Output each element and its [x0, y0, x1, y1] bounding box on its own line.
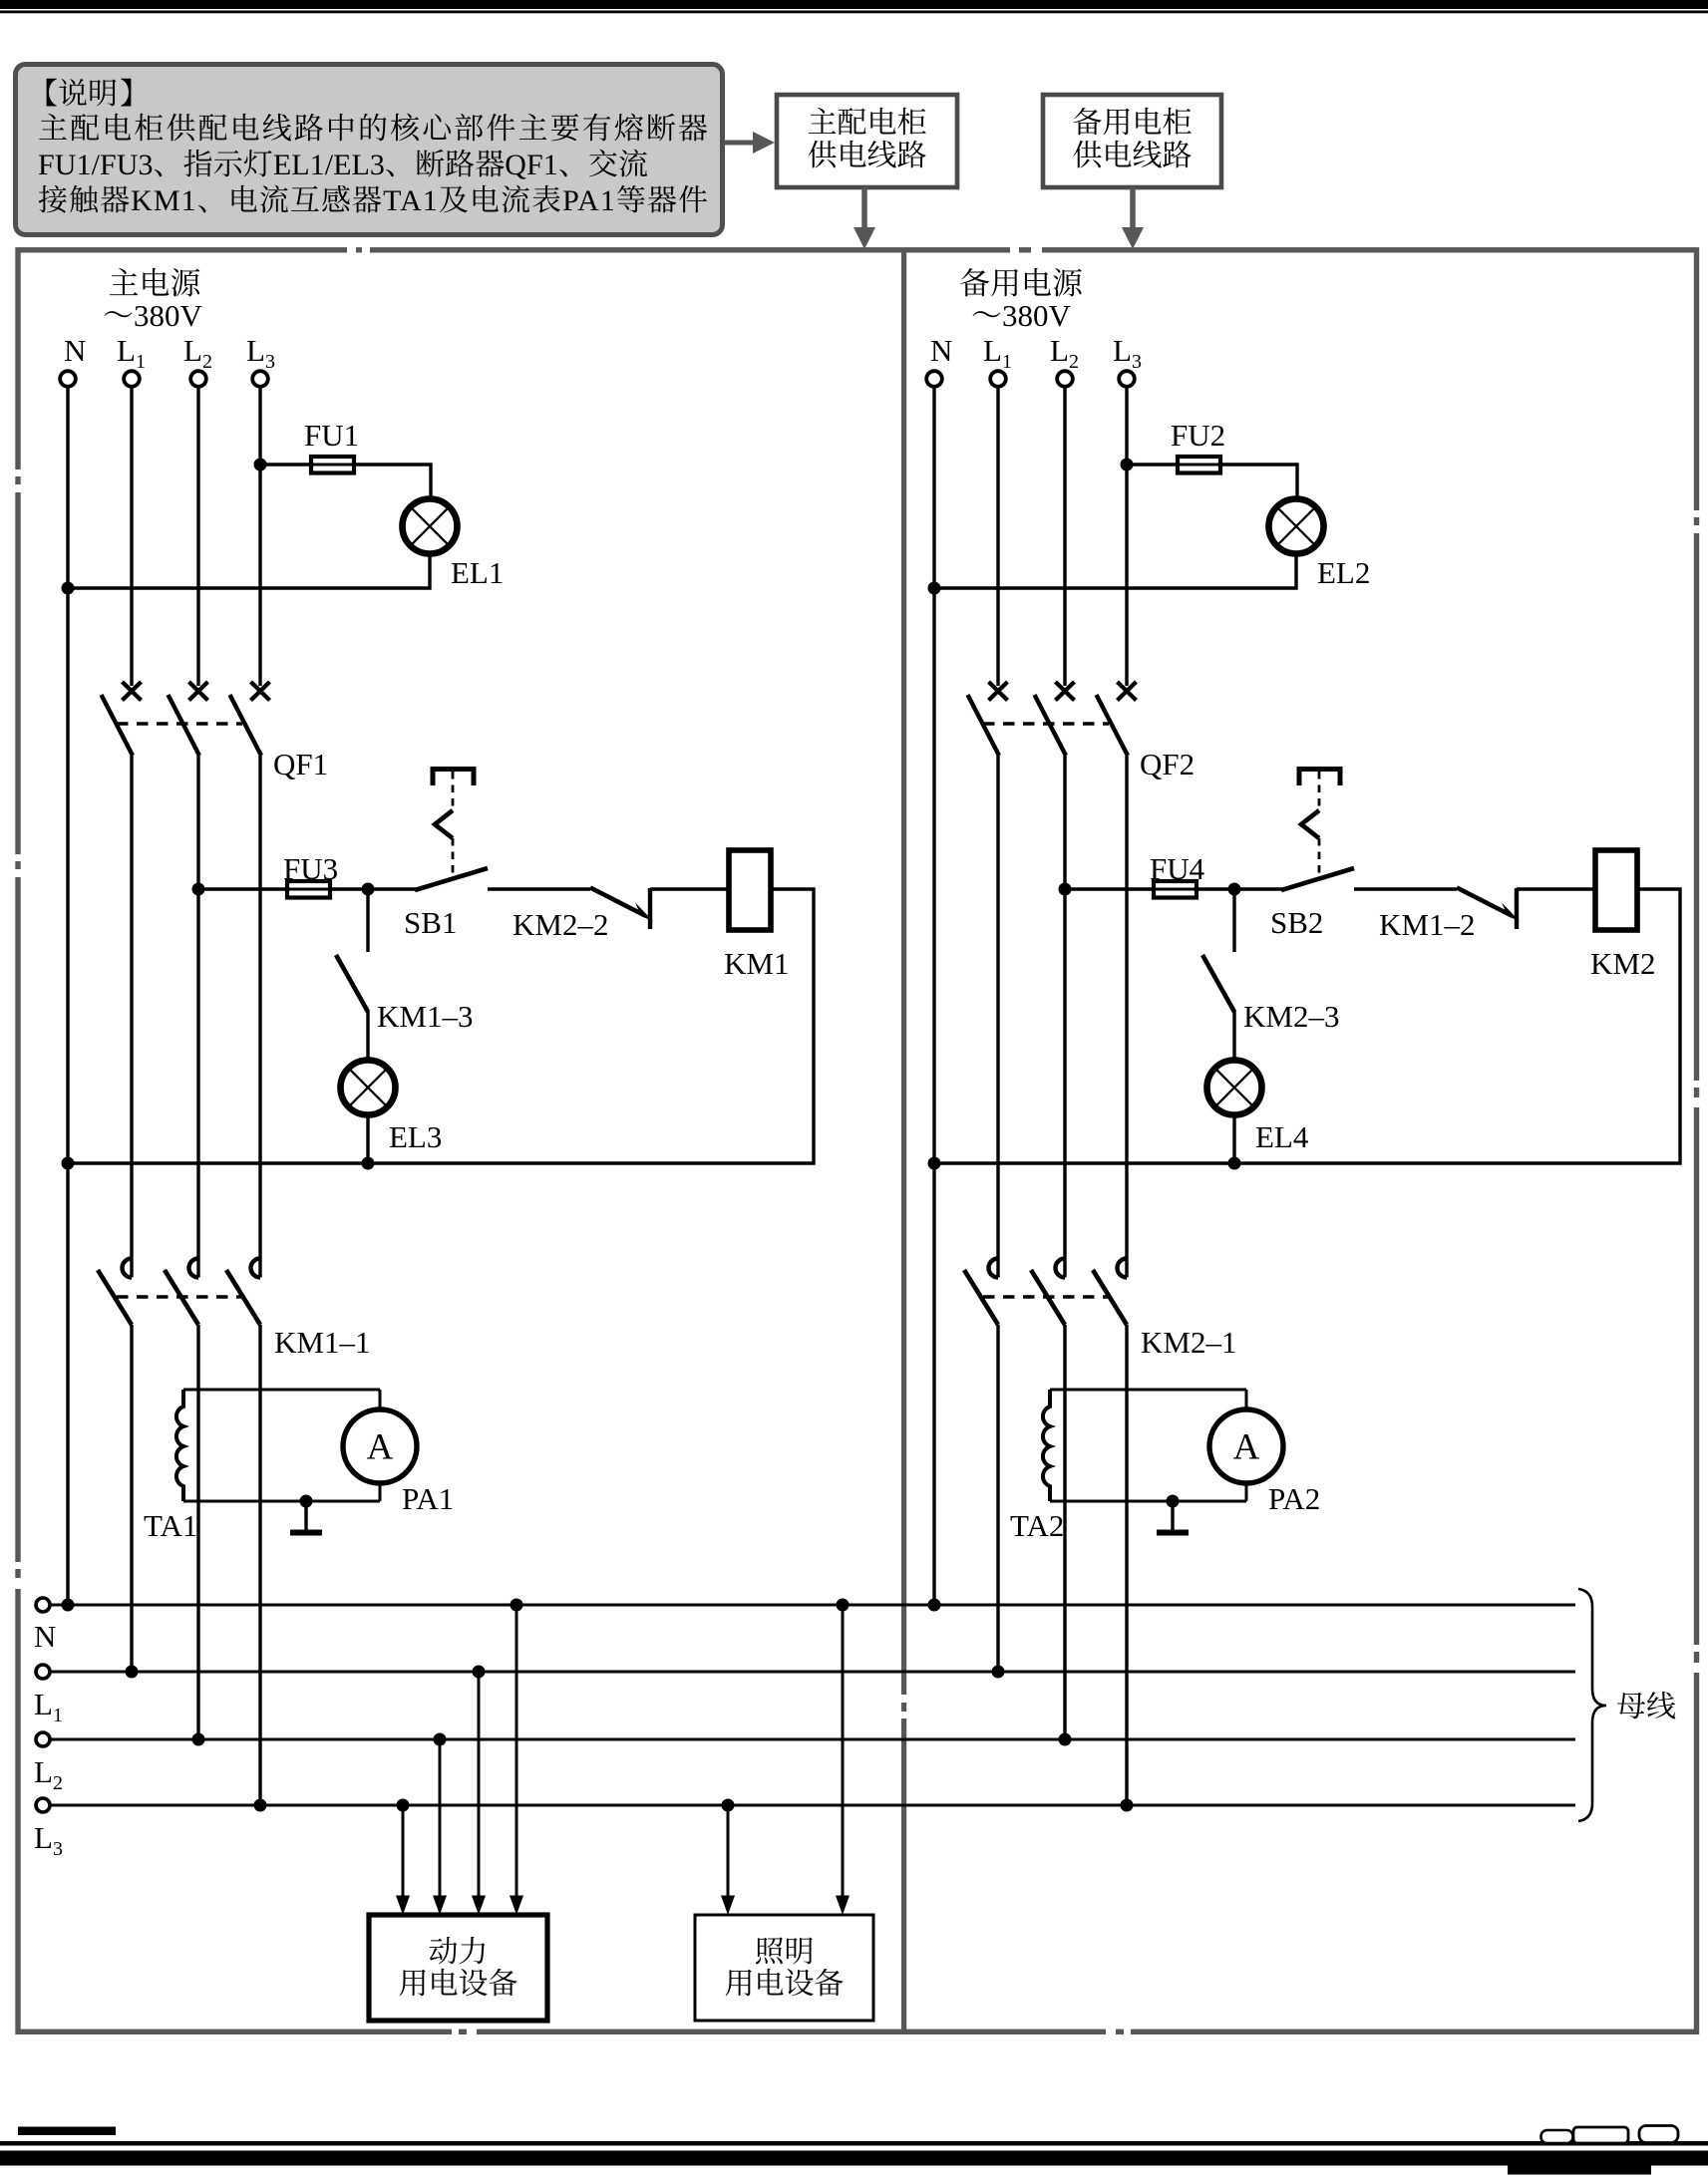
wire lamp to N rail: [934, 553, 1296, 588]
contact KM1–2 (NC interlock): [1457, 888, 1520, 930]
terminal L3: [1119, 371, 1135, 387]
arrow main box to frame: [861, 187, 867, 230]
top page bar: [0, 0, 1708, 9]
wire lamp to return: [1232, 1114, 1235, 1163]
wire L2 lower: [1063, 1325, 1066, 1739]
breaker QF2 pole: [1035, 682, 1075, 1259]
wire L3 lower: [1125, 1325, 1128, 1805]
top page rule: [0, 11, 1708, 14]
wire L1 lower: [130, 1325, 133, 1672]
node L2 to bus: [1059, 1733, 1072, 1746]
wire coil to return: [934, 889, 1680, 1163]
tap L3 to lighting loads: [721, 1799, 735, 1916]
wire tap down to aux contact: [1232, 889, 1235, 952]
bus bar N: [51, 1604, 1576, 1607]
svg-text:供电线路: 供电线路: [808, 131, 927, 174]
wire SB to NC contact: [1354, 887, 1457, 890]
contactor KM2–1 pole: [1031, 1259, 1065, 1326]
svg-text:L2: L2: [34, 1754, 63, 1794]
svg-text:L1: L1: [983, 333, 1012, 373]
svg-text:用电设备: 用电设备: [725, 1959, 845, 2003]
wire aux to lamp: [1232, 1011, 1235, 1061]
breaker QF1 pole: [102, 682, 142, 1259]
svg-text:用电设备: 用电设备: [399, 1959, 518, 2003]
breaker QF2 linkage: [983, 722, 1109, 726]
svg-text:PA1: PA1: [402, 1481, 454, 1516]
terminal N: [60, 371, 76, 387]
ground symbol: [290, 1501, 322, 1533]
breaker QF2 pole: [1097, 682, 1137, 1259]
svg-text:A: A: [1233, 1427, 1260, 1468]
contactor KM1–1 linkage: [117, 1295, 242, 1299]
bus bar L1: [51, 1671, 1576, 1674]
svg-text:FU1: FU1: [304, 418, 359, 453]
node return at N: [928, 1157, 941, 1170]
lamp EL4: [1207, 1061, 1262, 1115]
svg-text:QF2: QF2: [1140, 747, 1195, 781]
fuse FU4: [1154, 881, 1196, 898]
pushbutton SB2 blade: [1281, 868, 1354, 890]
fuse FU3: [287, 881, 330, 898]
svg-text:EL2: EL2: [1317, 555, 1370, 590]
node N to bus: [928, 1599, 941, 1612]
wire L3 to fuse: [260, 463, 311, 466]
svg-text:TA1: TA1: [144, 1508, 197, 1543]
wire fuse to lamp corner: [1220, 465, 1297, 499]
wire L3 vertical upper: [258, 387, 261, 687]
node L1 to bus: [126, 1666, 139, 1679]
svg-text:FU2: FU2: [1171, 418, 1225, 453]
svg-text:PA2: PA2: [1268, 1481, 1320, 1516]
tap L1 to power loads: [472, 1666, 486, 1916]
svg-text:SB1: SB1: [404, 905, 457, 940]
contact KM1–3 blade: [336, 955, 368, 1012]
coil KM2: [1595, 850, 1637, 930]
svg-text:EL3: EL3: [389, 1119, 442, 1154]
wire L2 vertical upper: [1063, 387, 1066, 687]
svg-text:KM2–3: KM2–3: [1243, 999, 1339, 1034]
bus bar L2: [51, 1738, 1576, 1741]
svg-text:～380V: ～380V: [971, 290, 1071, 335]
note box 说明: [16, 65, 723, 235]
contactor KM1–1 pole: [226, 1259, 260, 1326]
breaker QF1 pole: [230, 682, 270, 1259]
ground node: [1167, 1495, 1180, 1508]
wire L3 lower: [258, 1325, 261, 1805]
bus L3 terminal: [36, 1798, 50, 1812]
pushbutton SB1 actuator: [433, 770, 474, 875]
bottom page bar: [0, 2151, 1708, 2166]
bus brace: [1578, 1589, 1606, 1821]
lamp EL3: [341, 1061, 396, 1115]
wire aux to lamp: [366, 1011, 369, 1061]
tap N to power loads: [510, 1599, 523, 1916]
frame top border dash-break 1: [347, 245, 370, 254]
wire L3 vertical upper: [1125, 387, 1128, 687]
wire N vertical: [932, 387, 935, 1606]
wire N vertical: [66, 387, 69, 1606]
pushbutton SB2 actuator: [1299, 770, 1340, 875]
node return at N: [62, 1157, 75, 1170]
bottom-right page tab: [1508, 2165, 1651, 2175]
wire SB to NC contact: [488, 887, 590, 890]
svg-text:KM1: KM1: [724, 946, 789, 981]
node control tap on L2: [192, 883, 205, 896]
frame left border dash-break 2: [14, 854, 23, 877]
pushbutton SB1 blade: [415, 868, 488, 890]
node lamp branch tap: [362, 883, 375, 896]
tap L3 to power loads: [396, 1799, 410, 1916]
ground node: [300, 1495, 313, 1508]
CT TA1 winding: [176, 1390, 183, 1501]
wire lamp to N rail: [68, 553, 430, 588]
wire L1 vertical upper: [996, 387, 999, 687]
svg-text:L3: L3: [1113, 333, 1142, 373]
contactor KM2–1 linkage: [983, 1295, 1109, 1299]
terminal L3: [252, 371, 268, 387]
ammeter PA2: [1209, 1390, 1283, 1501]
svg-text:KM1–1: KM1–1: [274, 1325, 370, 1360]
svg-text:KM2: KM2: [1590, 946, 1655, 981]
svg-text:KM2–1: KM2–1: [1141, 1325, 1236, 1360]
terminal N: [926, 371, 942, 387]
frame bottom border dash-break 1: [452, 2028, 477, 2036]
svg-text:L2: L2: [183, 333, 212, 373]
node lamp branch tap: [1228, 883, 1241, 896]
flow box 主配电柜供电线路: [777, 95, 957, 187]
svg-text:TA2: TA2: [1010, 1508, 1064, 1543]
node L3 to bus: [1121, 1799, 1134, 1812]
bottom page rule: [0, 2141, 1708, 2146]
wire lamp to return: [366, 1114, 369, 1163]
wire coil to return: [68, 889, 814, 1163]
bus L2 terminal: [36, 1732, 50, 1746]
wire NC to coil: [1517, 887, 1595, 890]
svg-text:L1: L1: [34, 1687, 63, 1726]
node N to bus: [62, 1599, 75, 1612]
contactor KM2–1 pole: [964, 1259, 998, 1326]
frame bottom border dash-break 2: [1106, 2028, 1131, 2036]
page doodle cylinder 2: [1573, 2127, 1628, 2143]
wire L2 to control fuse: [198, 887, 287, 890]
load box 动力用电设备: [369, 1915, 547, 2021]
wire L1 lower: [996, 1325, 999, 1672]
lamp EL2: [1269, 499, 1324, 554]
node L1 to bus: [992, 1666, 1005, 1679]
wire L1 vertical upper: [130, 387, 133, 687]
svg-text:L3: L3: [246, 333, 275, 373]
svg-text:KM2–2: KM2–2: [512, 907, 608, 942]
CT loop bottom: [183, 1500, 380, 1503]
frame right border dash-break 1: [1692, 510, 1701, 533]
page doodle cylinder 3: [1639, 2126, 1678, 2143]
breaker QF1 linkage: [117, 722, 242, 726]
wire fuse to SB: [330, 887, 416, 890]
coil KM1: [729, 850, 771, 930]
bus N terminal: [36, 1598, 50, 1612]
tap L2 to power loads: [433, 1733, 447, 1916]
wire fuse to lamp corner: [354, 465, 431, 499]
bus L1 terminal: [36, 1665, 50, 1679]
svg-text:L3: L3: [34, 1820, 63, 1860]
contact KM2–2 (NC interlock): [590, 888, 653, 930]
wire tap down to aux contact: [366, 889, 369, 952]
terminal L2: [1057, 371, 1073, 387]
bus bar L3: [51, 1804, 1576, 1807]
node L3 to bus: [254, 1799, 267, 1812]
svg-text:A: A: [367, 1427, 394, 1468]
flow box 备用电柜供电线路: [1043, 95, 1221, 187]
wire fuse to SB: [1196, 887, 1282, 890]
frame left border dash-break 3: [14, 1562, 23, 1589]
ammeter PA1: [343, 1390, 417, 1501]
frame top border dash-break 2: [1010, 245, 1042, 254]
fuse FU1: [311, 457, 354, 473]
svg-text:母线: 母线: [1616, 1682, 1676, 1725]
frame left border dash-break 1: [14, 469, 23, 492]
tap N to lighting loads: [836, 1599, 850, 1916]
svg-text:KM1–2: KM1–2: [1379, 907, 1475, 942]
breaker QF1 pole: [169, 682, 208, 1259]
breaker QF2 pole: [968, 682, 1008, 1259]
svg-text:供电线路: 供电线路: [1073, 131, 1193, 174]
contactor KM1–1 pole: [165, 1259, 198, 1326]
svg-text:KM1–3: KM1–3: [377, 999, 473, 1034]
svg-text:接触器KM1、电流互感器TA1及电流表PA1等器件: 接触器KM1、电流互感器TA1及电流表PA1等器件: [38, 175, 708, 219]
node control tap on L2: [1059, 883, 1072, 896]
arrow backup box to frame: [1130, 187, 1136, 230]
ground symbol: [1157, 1501, 1189, 1533]
page doodle cylinder 1: [1541, 2130, 1573, 2143]
node N lamp return: [62, 582, 75, 595]
node L3 fuse tap: [254, 459, 267, 471]
svg-text:N: N: [34, 1619, 56, 1654]
contact KM2–3 blade: [1202, 955, 1234, 1012]
CT loop bottom: [1050, 1500, 1246, 1503]
svg-text:SB2: SB2: [1270, 905, 1323, 940]
load box 照明用电设备: [695, 1915, 873, 2021]
contactor KM1–1 pole: [98, 1259, 132, 1326]
node lamp return: [1228, 1157, 1241, 1170]
arrow note box to main box: [725, 141, 756, 146]
node L3 fuse tap: [1121, 459, 1134, 471]
svg-text:N: N: [64, 333, 86, 368]
centre divider line: [901, 252, 906, 2029]
node L2 to bus: [192, 1733, 205, 1746]
lamp EL1: [403, 499, 458, 554]
svg-text:FU3: FU3: [283, 851, 338, 886]
node N lamp return: [928, 582, 941, 595]
svg-text:N: N: [930, 333, 952, 368]
bottom-left page mark: [18, 2127, 116, 2136]
svg-text:～380V: ～380V: [103, 290, 202, 335]
CT TA1 loop top: [183, 1389, 380, 1392]
wire L2 vertical upper: [196, 387, 199, 687]
CT TA2 loop top: [1050, 1389, 1246, 1392]
fuse FU2: [1178, 457, 1220, 473]
svg-text:QF1: QF1: [273, 747, 328, 781]
wire L3 to fuse: [1127, 463, 1178, 466]
svg-text:EL1: EL1: [451, 555, 504, 590]
node lamp return: [362, 1157, 375, 1170]
CT TA2 winding: [1043, 1390, 1050, 1501]
divider dash-break: [899, 1695, 908, 1718]
svg-text:L1: L1: [117, 333, 146, 373]
terminal L2: [190, 371, 206, 387]
contactor KM2–1 pole: [1093, 1259, 1127, 1326]
svg-text:FU4: FU4: [1150, 851, 1205, 886]
wire NC to coil: [650, 887, 729, 890]
terminal L1: [124, 371, 140, 387]
frame right border dash-break 3: [1692, 1645, 1701, 1673]
svg-text:L2: L2: [1050, 333, 1079, 373]
wire L2 lower: [196, 1325, 199, 1739]
terminal L1: [990, 371, 1006, 387]
wire L2 to control fuse: [1065, 887, 1154, 890]
frame right border dash-break 2: [1692, 1081, 1701, 1107]
svg-text:EL4: EL4: [1255, 1119, 1309, 1154]
